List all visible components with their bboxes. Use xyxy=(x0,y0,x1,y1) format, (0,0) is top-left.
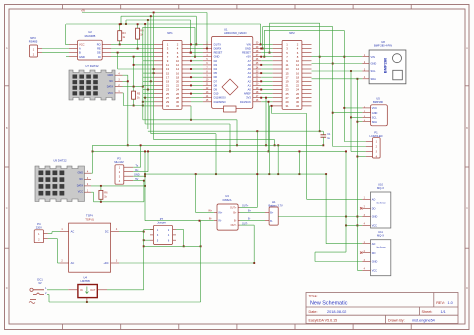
svg-text:U9 DHT22: U9 DHT22 xyxy=(53,159,67,163)
wire U9 DATA xyxy=(91,185,145,187)
svg-text:D7: D7 xyxy=(214,79,218,83)
svg-text:Gas Sensor: Gas Sensor xyxy=(376,247,386,249)
svg-text:D4: D4 xyxy=(214,67,218,71)
wire P1 pin2 xyxy=(333,146,366,148)
svg-text:AO: AO xyxy=(372,243,376,246)
svg-text:RO: RO xyxy=(97,43,101,47)
wire U9 bottom rail xyxy=(94,201,144,203)
wire mid vertical a xyxy=(265,98,267,146)
wire x143 vertical (DC to U4 OUT) xyxy=(143,230,145,290)
wire H_H rail xyxy=(145,173,326,175)
svg-text:P7: P7 xyxy=(160,217,164,221)
svg-text:NP2: NP2 xyxy=(289,31,295,35)
svg-text:U5: U5 xyxy=(376,97,380,101)
svg-text:GND: GND xyxy=(372,112,378,115)
svg-text:LM7805: LM7805 xyxy=(81,279,91,283)
wire top bus B5 xyxy=(143,26,195,28)
wire U3 OUT- xyxy=(240,224,254,226)
svg-text:A: A xyxy=(466,46,468,50)
wire y246 horizontal xyxy=(144,245,201,247)
wire U9 GND up xyxy=(91,172,93,174)
svg-text:D3: D3 xyxy=(214,63,218,67)
svg-text:RESET: RESET xyxy=(214,51,223,55)
svg-text:DC: DC xyxy=(105,230,109,234)
wire U7 VCC xyxy=(122,92,125,94)
svg-text:D0/RX: D0/RX xyxy=(214,47,222,51)
svg-text:P4: P4 xyxy=(37,222,41,226)
svg-text:Sheet:: Sheet: xyxy=(422,310,433,314)
svg-text:MAX485: MAX485 xyxy=(85,34,96,38)
svg-text:B: B xyxy=(466,126,468,130)
svg-text:B-: B- xyxy=(234,220,237,223)
svg-text:GND: GND xyxy=(107,74,113,77)
wire P1 pin3 xyxy=(351,151,366,153)
svg-text:U8: U8 xyxy=(381,40,385,44)
svg-text:TITLE:: TITLE: xyxy=(309,294,318,298)
wire top-right bus BR2 (+5V) xyxy=(264,29,344,31)
svg-text:1.0: 1.0 xyxy=(448,301,453,305)
svg-text:BMP280: BMP280 xyxy=(383,57,388,73)
svg-text:D12/MISO: D12/MISO xyxy=(214,100,226,104)
svg-text:MQ-X: MQ-X xyxy=(377,186,384,190)
svg-text:U10: U10 xyxy=(378,182,383,186)
svg-text:A: A xyxy=(79,47,81,51)
wire U7 NC xyxy=(123,80,128,82)
svg-text:AC: AC xyxy=(71,261,75,265)
wire H_F rail xyxy=(93,144,324,146)
svg-text:U3: U3 xyxy=(225,194,229,198)
svg-text:VCC: VCC xyxy=(372,225,377,228)
svg-text:GND: GND xyxy=(214,55,220,59)
svg-text:DATA: DATA xyxy=(107,86,114,89)
wire top bus B1 xyxy=(82,12,207,14)
svg-text:BMP180: BMP180 xyxy=(373,100,384,104)
wire U3 B+ xyxy=(240,212,265,214)
svg-text:D9: D9 xyxy=(214,88,218,92)
svg-text:Jumper: Jumper xyxy=(157,220,166,224)
wire top bus B4 (VCC rail) xyxy=(66,23,261,25)
wire right bus x319 (C1 feed) xyxy=(319,23,321,131)
wire VIN drop to U1 xyxy=(260,24,262,44)
wire P3 Tx xyxy=(133,166,140,168)
wire P1 pin1 xyxy=(344,141,366,143)
svg-text:IN: IN xyxy=(80,289,83,292)
svg-text:DO: DO xyxy=(372,252,376,255)
svg-text:Gas Sensor: Gas Sensor xyxy=(376,203,386,205)
wire NP2 row16 left xyxy=(269,105,272,107)
svg-text:C: C xyxy=(466,206,468,210)
wire SCL lower vertical x351 xyxy=(350,71,352,152)
svg-text:NC: NC xyxy=(79,178,83,181)
resistor R5 xyxy=(133,87,135,92)
U1 diamond mark xyxy=(222,79,238,95)
svg-text:GND: GND xyxy=(77,172,83,175)
wire P4 pin1 to TSP AC1 xyxy=(48,233,52,235)
svg-text:A4: A4 xyxy=(248,71,252,75)
wire NP1 row16 down xyxy=(190,106,192,120)
wire H_A xyxy=(143,119,237,121)
svg-text:mst.engine54: mst.engine54 xyxy=(412,318,435,322)
svg-text:Date:: Date: xyxy=(309,310,318,314)
wire U7 DATA xyxy=(123,86,143,88)
svg-text:IN-: IN- xyxy=(219,220,222,223)
svg-text:VCC: VCC xyxy=(79,43,85,47)
svg-text:D: D xyxy=(466,286,468,290)
wire U2 DI to NP1 row4 xyxy=(111,56,154,58)
svg-text:VIN: VIN xyxy=(246,42,250,46)
wire P3 5V xyxy=(133,180,144,182)
wire DE drop to GND rail xyxy=(117,53,119,69)
wire P7 pin2 right xyxy=(176,229,184,231)
svg-text:AC: AC xyxy=(71,230,75,234)
svg-text:220V: 220V xyxy=(36,225,42,229)
svg-text:A1: A1 xyxy=(248,83,252,87)
wire NP1-left vertical b xyxy=(144,24,146,124)
svg-text:LCD/OLED: LCD/OLED xyxy=(370,134,383,138)
svg-text:U4: U4 xyxy=(83,275,87,279)
wire top-right bus BR1 (GND) xyxy=(263,26,333,28)
svg-text:OUT: OUT xyxy=(90,289,96,292)
svg-text:A5: A5 xyxy=(248,67,252,71)
wire U8 SCL from NP2 xyxy=(312,70,363,72)
wire battery GND rail xyxy=(278,216,362,218)
svg-text:AREF: AREF xyxy=(244,92,251,96)
wire U1 to NP2 rows xyxy=(261,43,273,45)
wire right bus x346 xyxy=(345,151,347,252)
svg-text:RS485: RS485 xyxy=(29,40,38,44)
svg-text:TSP (I): TSP (I) xyxy=(85,217,94,221)
svg-text:DATA: DATA xyxy=(77,184,84,187)
wire DC1 to U4 IN xyxy=(47,289,68,291)
wire U3 IN+ xyxy=(195,174,197,213)
svg-text:OUT+: OUT+ xyxy=(230,206,237,209)
wire right bus x332 (GND chain) xyxy=(332,27,334,147)
title block xyxy=(306,293,458,324)
svg-text:U7 DHT22: U7 DHT22 xyxy=(85,64,99,68)
svg-text:MH-16Z: MH-16Z xyxy=(114,160,124,164)
svg-text:D11/MOSI: D11/MOSI xyxy=(214,96,226,100)
wire U3 OUT+ xyxy=(240,206,257,208)
svg-text:GND: GND xyxy=(245,47,251,51)
svg-text:OUT+: OUT+ xyxy=(242,204,249,207)
svg-text:GND: GND xyxy=(372,216,378,219)
svg-text:New Schematic: New Schematic xyxy=(310,301,348,307)
wire x200 vertical xyxy=(200,221,202,302)
U1 usb rect xyxy=(224,106,237,112)
svg-text:32: 32 xyxy=(176,104,180,108)
svg-text:DI: DI xyxy=(98,55,101,59)
wire GND rail row6 xyxy=(118,68,154,70)
svg-text:A: A xyxy=(6,46,8,50)
svg-text:GND: GND xyxy=(79,55,85,59)
wire U8 VIN from NP2 xyxy=(312,56,363,58)
svg-text:B-: B- xyxy=(248,218,251,221)
wire DI jog to row5 xyxy=(133,57,135,87)
wire U5 SCL xyxy=(351,116,362,118)
svg-text:DE: DE xyxy=(97,51,101,55)
svg-text:SCL: SCL xyxy=(372,117,377,120)
svg-text:RE: RE xyxy=(97,47,101,51)
wire U2 VCC to bus B4 xyxy=(65,43,69,45)
wire P3 GND xyxy=(133,175,145,177)
svg-text:2018-08-02: 2018-08-02 xyxy=(327,310,346,314)
svg-text:NP1: NP1 xyxy=(167,31,173,35)
wire top bus B2 xyxy=(121,15,196,17)
wire DC1 gnd down xyxy=(47,294,49,296)
svg-text:D5: D5 xyxy=(214,71,218,75)
capacitor C1 xyxy=(322,131,324,135)
wire P4 pin2 to TSP AC2 xyxy=(48,238,58,240)
svg-text:AO: AO xyxy=(372,199,376,202)
svg-text:VCC: VCC xyxy=(108,92,113,95)
svg-text:B: B xyxy=(79,51,81,55)
wire U11 AO feed xyxy=(325,174,327,244)
wire U2 RE to NP1 row2 xyxy=(111,48,154,50)
wire NP1-left vertical d xyxy=(150,17,152,134)
wire NP3 to U2 B xyxy=(42,52,69,54)
svg-text:9V: 9V xyxy=(38,281,41,285)
svg-text:REV:: REV: xyxy=(436,301,445,305)
wire NP1-left vertical a xyxy=(142,27,144,120)
svg-text:D6: D6 xyxy=(214,75,218,79)
svg-text:A7: A7 xyxy=(248,59,252,63)
svg-text:GND: GND xyxy=(371,62,377,66)
svg-text:IN+: IN+ xyxy=(208,210,212,213)
svg-text:BMP 280 4-PIN: BMP 280 4-PIN xyxy=(374,43,392,47)
svg-text:H1: H1 xyxy=(272,200,276,204)
svg-text:D8: D8 xyxy=(214,83,218,87)
svg-text:C: C xyxy=(6,206,8,210)
wire vertical x299 xyxy=(298,151,300,174)
svg-text:VIN: VIN xyxy=(371,55,375,59)
wire top-right bus BR0 (C1 feed) xyxy=(270,22,320,24)
svg-text:SDA: SDA xyxy=(372,121,377,124)
wire SDA lower vertical x357 xyxy=(356,79,358,271)
wire TSP +DC rail xyxy=(119,262,254,264)
svg-text:VCC: VCC xyxy=(372,270,377,273)
wire top bus B3 xyxy=(126,19,191,21)
svg-text:VCC: VCC xyxy=(78,191,83,194)
wire vertical x145 xyxy=(144,151,146,220)
wire TSP DC to P7 xyxy=(119,231,144,233)
wire U8 SDA from NP2 xyxy=(312,78,363,80)
wire H_B xyxy=(145,123,230,125)
wire mid vertical b xyxy=(268,102,270,152)
wire U4 OUT to x143 xyxy=(107,289,144,291)
svg-text:DC1: DC1 xyxy=(37,277,43,281)
svg-text:U11: U11 xyxy=(378,230,383,234)
svg-text:A6: A6 xyxy=(248,63,252,67)
wire NP1 to U1 rows xyxy=(191,43,203,45)
svg-text:A2: A2 xyxy=(248,79,252,83)
svg-text:+5V: +5V xyxy=(246,55,251,59)
svg-text:Drawn By:: Drawn By: xyxy=(388,318,405,322)
wire U8 GND from NP2 xyxy=(312,63,363,65)
svg-text:B: B xyxy=(6,126,8,130)
svg-text:D: D xyxy=(6,286,8,290)
svg-text:31: 31 xyxy=(166,104,170,108)
wire NP1 left links xyxy=(143,60,154,62)
wire U5 VCC xyxy=(344,107,362,109)
wire NP1-left vertical c xyxy=(147,19,149,129)
svg-text:DO: DO xyxy=(372,208,376,211)
svg-text:VCC: VCC xyxy=(372,107,377,110)
wire U2 GND stub wire xyxy=(66,56,69,58)
wire U4 GND down xyxy=(86,298,88,302)
wire H_C rail xyxy=(148,130,323,132)
svg-text:+DC: +DC xyxy=(103,261,108,265)
wire mid vertical c xyxy=(268,106,270,174)
svg-text:NC: NC xyxy=(109,80,113,83)
wire mid vertical d xyxy=(277,145,279,174)
resistor R6 xyxy=(100,186,102,191)
wire U9 VCC xyxy=(91,191,94,193)
svg-text:RESET: RESET xyxy=(242,51,251,55)
svg-text:SCL: SCL xyxy=(371,69,377,73)
resistor R3 xyxy=(119,24,121,31)
svg-text:31: 31 xyxy=(285,104,289,108)
svg-text:MQ-X: MQ-X xyxy=(377,234,384,238)
svg-text:B-: B- xyxy=(270,220,273,223)
wire H_E xyxy=(154,139,275,141)
svg-text:A3: A3 xyxy=(248,75,252,79)
wire H_D xyxy=(151,133,216,135)
resistor R4 xyxy=(137,24,139,28)
svg-text:03962A: 03962A xyxy=(223,198,232,202)
svg-text:P1: P1 xyxy=(374,130,378,134)
svg-text:A0: A0 xyxy=(248,88,252,92)
svg-text:32: 32 xyxy=(296,104,300,108)
svg-text:IN+: IN+ xyxy=(219,212,223,215)
wire U2 RO to NP1 row1 xyxy=(111,43,154,45)
svg-text:D10: D10 xyxy=(214,92,219,96)
wire H_G rail xyxy=(93,150,347,152)
wire U11 VCC feed xyxy=(357,269,362,271)
svg-text:ARDUINO_NANO: ARDUINO_NANO xyxy=(224,31,247,35)
wire U3 B- xyxy=(240,220,265,222)
wire NP1-left vertical e xyxy=(153,14,155,140)
wire P3 Rx xyxy=(133,171,148,173)
svg-text:1/1: 1/1 xyxy=(441,310,446,314)
svg-text:OUT-: OUT- xyxy=(231,224,237,227)
wire U7 GND down xyxy=(123,74,128,76)
wire U2 DE to NP1 row3 xyxy=(111,52,154,54)
svg-text:D2: D2 xyxy=(214,59,218,63)
wire right bus x344 (VIN chain) xyxy=(343,30,345,141)
svg-text:D13/SCK: D13/SCK xyxy=(240,100,251,104)
svg-text:P3: P3 xyxy=(117,156,121,160)
wire ground rail y302 xyxy=(49,301,201,303)
wire U10 AO feed xyxy=(271,106,273,114)
wire U5 SDA xyxy=(357,121,362,123)
wire NP3 to U2 A xyxy=(42,48,69,50)
wire P7 pin5 down xyxy=(144,239,150,241)
wire U11 GND feed xyxy=(315,251,346,253)
svg-text:3V3: 3V3 xyxy=(246,96,251,100)
svg-text:EasyEDA V5.6.15: EasyEDA V5.6.15 xyxy=(309,318,338,322)
svg-text:GND: GND xyxy=(372,261,378,264)
svg-text:SDA: SDA xyxy=(371,77,377,81)
wire U3 IN- xyxy=(145,220,214,222)
svg-text:IN-: IN- xyxy=(209,218,212,221)
wire U10 VCC rail xyxy=(346,224,362,226)
svg-text:D1/TX: D1/TX xyxy=(214,42,222,46)
wire P1 pin4 xyxy=(357,156,365,158)
wire U5 GND xyxy=(333,112,363,114)
